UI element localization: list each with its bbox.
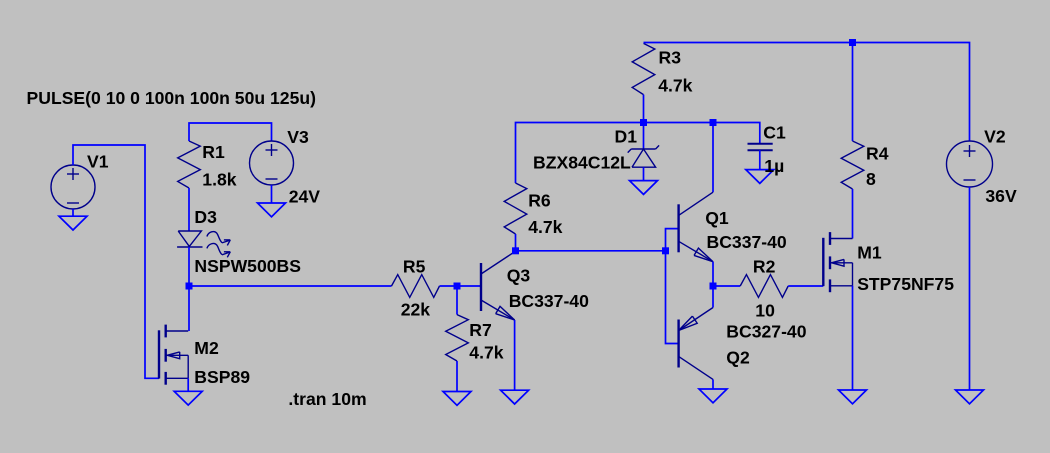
ground under M1 — [839, 390, 867, 404]
svg-text:BZX84C12L: BZX84C12L — [533, 153, 631, 173]
npn transistor Q3 — [480, 263, 482, 311]
svg-text:24V: 24V — [289, 187, 321, 207]
svg-text:R2: R2 — [753, 257, 776, 277]
wire R2 to M1 gate — [788, 285, 823, 287]
ground under V3 — [258, 203, 286, 217]
resistor R4 — [841, 141, 864, 189]
svg-text:R4: R4 — [866, 144, 889, 164]
LED D3 light arrow 1 — [207, 232, 222, 243]
wire Q2 emitter to emitters node — [712, 286, 714, 308]
wire node to R5 — [189, 285, 392, 287]
svg-text:36V: 36V — [985, 186, 1017, 206]
svg-text:R7: R7 — [469, 320, 492, 340]
svg-text:V3: V3 — [287, 127, 309, 147]
node junction D3/M2/R5 — [186, 283, 193, 290]
wire R7 to ground — [456, 361, 458, 392]
resistor R7 — [446, 315, 469, 361]
svg-text:4.7k: 4.7k — [469, 343, 503, 363]
ground under Q2 — [699, 389, 727, 403]
voltage source V3 — [250, 141, 294, 185]
svg-text:BC327-40: BC327-40 — [726, 322, 806, 342]
svg-text:Q1: Q1 — [705, 208, 729, 228]
node junction R3/D1 — [640, 119, 647, 126]
wire base node to Q2 base — [666, 251, 679, 344]
wire M1 source to ground — [852, 286, 854, 390]
wire V3 minus stub — [271, 185, 273, 203]
svg-text:1.8k: 1.8k — [202, 169, 236, 189]
ground under Q3 emitter — [501, 390, 529, 404]
pnp transistor Q2 — [677, 320, 679, 368]
wire M2 source to ground — [187, 378, 189, 391]
n-mosfet M1 — [822, 238, 824, 286]
wire horizontal upper rail to R6 top — [516, 123, 760, 184]
wire node down to R7 — [456, 286, 458, 315]
wire node to Q1 Q2 bases node — [516, 250, 666, 252]
svg-text:.tran 10m: .tran 10m — [288, 389, 366, 409]
node junction top rail / R4 — [849, 39, 856, 46]
wire R6 bottom to node — [515, 234, 517, 251]
svg-text:R5: R5 — [403, 257, 426, 277]
wire rail node down to R4 — [852, 43, 854, 142]
svg-text:Q3: Q3 — [507, 266, 531, 286]
n-mosfet M2 — [158, 330, 160, 378]
svg-text:22k: 22k — [401, 300, 431, 320]
voltage source V2 — [947, 141, 993, 187]
resistor R6 — [504, 183, 527, 234]
wire V2 to ground — [969, 187, 971, 390]
ground under V1 — [59, 216, 87, 230]
svg-text:M1: M1 — [857, 242, 882, 262]
wire Q3 emitter to ground — [514, 320, 516, 390]
ground under M2 — [174, 391, 202, 405]
ground under C1 — [746, 170, 774, 184]
svg-text:R6: R6 — [528, 191, 551, 211]
node junction emitters / R2 — [710, 283, 717, 290]
svg-text:BC337-40: BC337-40 — [707, 232, 787, 252]
wire node down to Q1 collector — [712, 123, 714, 193]
resistor R2 — [740, 275, 788, 298]
svg-text:1µ: 1µ — [764, 156, 784, 176]
svg-text:4.7k: 4.7k — [528, 217, 562, 237]
wire D3 to node — [188, 247, 190, 286]
wire node down to M2 drain — [188, 286, 190, 331]
ground under D1 — [630, 181, 658, 195]
ground under R7 — [443, 392, 471, 406]
wire V1 plus to M2 gate — [73, 145, 159, 378]
wire C1 to ground — [759, 150, 761, 169]
capacitor C1 — [748, 143, 773, 145]
svg-text:V2: V2 — [984, 126, 1006, 146]
ground under V2 — [956, 390, 984, 404]
node junction R5/R7/Q3 — [454, 283, 461, 290]
zener diode D1 — [643, 123, 645, 150]
resistor R3 — [632, 43, 655, 94]
svg-text:NSPW500BS: NSPW500BS — [194, 256, 301, 276]
svg-text:BC337-40: BC337-40 — [509, 291, 589, 311]
svg-text:Q2: Q2 — [726, 348, 750, 368]
svg-text:D3: D3 — [194, 207, 217, 227]
wire emitters node to R2 — [713, 285, 740, 287]
wire Q1 emitter to emitters node — [712, 262, 714, 286]
resistor R5 — [392, 275, 440, 298]
resistor R1 — [178, 141, 201, 188]
svg-text:10: 10 — [755, 300, 775, 320]
svg-text:M2: M2 — [194, 338, 219, 358]
wire top rail — [644, 43, 970, 142]
voltage source V1 — [51, 165, 95, 209]
svg-text:PULSE(0 10 0 100n 100n 50u 125: PULSE(0 10 0 100n 100n 50u 125u) — [27, 88, 316, 108]
svg-text:4.7k: 4.7k — [658, 76, 692, 96]
wire base node to Q1 base — [666, 229, 679, 251]
wire R3 bottom to node — [643, 95, 645, 123]
node junction C1 branch / Q1 collector — [710, 119, 717, 126]
LED D3 light arrow 2 — [207, 244, 222, 255]
wire R4 to M1 drain — [852, 189, 854, 239]
svg-text:D1: D1 — [615, 127, 638, 147]
svg-text:BSP89: BSP89 — [194, 367, 250, 387]
svg-text:STP75NF75: STP75NF75 — [857, 274, 954, 294]
node junction Q3 collector / R6 / bases — [512, 247, 519, 254]
svg-text:R3: R3 — [659, 48, 682, 68]
wire V1 minus stub — [72, 209, 74, 216]
svg-text:8: 8 — [866, 169, 876, 189]
svg-text:V1: V1 — [87, 151, 109, 171]
wire R5 to Q3 base — [440, 285, 482, 287]
LED D3 — [178, 231, 201, 246]
node junction bases of Q1 and Q2 — [662, 247, 669, 254]
npn transistor Q1 — [677, 204, 679, 252]
svg-text:R1: R1 — [202, 142, 225, 162]
svg-text:C1: C1 — [763, 122, 786, 142]
wire D1 to ground — [643, 167, 645, 180]
wire R1 bottom to D3 — [188, 188, 190, 231]
wire R1 top to V3 top — [189, 123, 272, 141]
wire Q2 collector to ground — [712, 379, 714, 389]
